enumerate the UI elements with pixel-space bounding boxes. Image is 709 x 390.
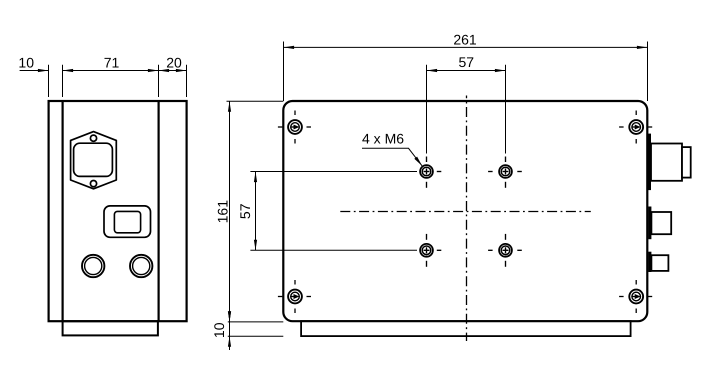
dimension 10 (right view bottom): [211, 311, 283, 347]
corner screw bottom-left: [278, 280, 311, 313]
corner screw top-left: [278, 111, 311, 144]
right view housing outline: [283, 101, 647, 321]
dimension 261 (right view top): [284, 31, 648, 101]
svg-text:71: 71: [104, 54, 120, 70]
extension line at x=186.9: [186, 65, 188, 97]
bottom connector flange (right side): [648, 252, 651, 272]
top circular connector body: [651, 144, 682, 181]
extension line at x=159: [158, 65, 160, 97]
svg-text:4 x M6: 4 x M6: [362, 131, 404, 147]
dimension 161 (right view left): [214, 101, 283, 350]
dimension 71 (left view top): [63, 54, 159, 72]
extension line at x=62.7: [62, 65, 64, 97]
left view inner vertical line (right wall): [158, 101, 160, 321]
round socket left inner ring: [85, 257, 102, 274]
label 4 x M6 with leader: [362, 131, 422, 166]
corner screw top-right: [619, 111, 652, 144]
svg-text:10: 10: [211, 322, 227, 338]
dimension 20 (left view top): [159, 54, 187, 72]
D-connector hexagonal bezel: [71, 132, 117, 189]
middle connector body: [651, 212, 671, 234]
svg-text:10: 10: [18, 54, 34, 70]
horizontal centerline: [340, 211, 591, 213]
left view inner vertical line (left wall): [61, 101, 63, 321]
top circular connector flange (right side): [647, 134, 651, 191]
M6 screw top-left: [250, 65, 441, 188]
svg-text:20: 20: [166, 54, 182, 70]
bottom connector body: [651, 255, 668, 271]
top circular connector tip: [682, 147, 691, 178]
left view housing outline: [49, 101, 187, 321]
svg-text:161: 161: [214, 200, 230, 224]
left view bottom plate flange: [63, 321, 158, 335]
dimension 57 (right view left): [237, 172, 257, 251]
M6 screw bottom-left: [250, 234, 441, 267]
rectangular connector inner opening: [114, 211, 140, 232]
dimension 57 (right view top): [427, 54, 506, 72]
middle connector flange (right side): [648, 207, 651, 240]
round socket right outer ring: [130, 255, 152, 277]
dimension 10 (left view top): [18, 54, 48, 72]
M6 screw bottom-right: [488, 234, 522, 267]
right view bottom plate flange: [301, 321, 630, 336]
D-connector top screw hole: [90, 135, 96, 141]
svg-text:261: 261: [453, 31, 477, 47]
svg-text:57: 57: [459, 54, 475, 70]
svg-text:57: 57: [237, 203, 253, 219]
round socket right inner ring: [133, 257, 150, 274]
M6 screw top-right: [488, 65, 522, 188]
D-connector bottom screw hole: [90, 181, 96, 187]
extension line at x=48: [48, 65, 50, 97]
vertical centerline: [466, 96, 468, 342]
round socket left outer ring: [82, 255, 104, 277]
corner screw bottom-right: [619, 280, 652, 313]
rectangular connector outer bezel: [104, 206, 151, 237]
D-connector opening (rounded rectangle): [74, 143, 113, 176]
